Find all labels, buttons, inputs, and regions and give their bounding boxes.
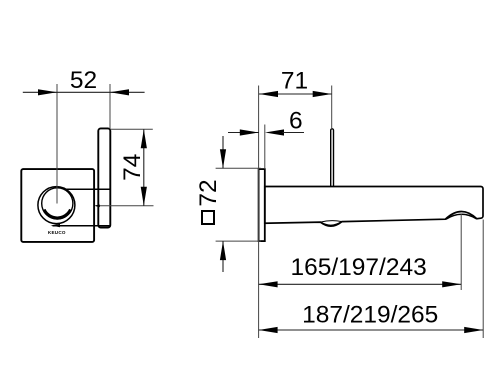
spout body outline bbox=[265, 187, 483, 227]
svg-text:71: 71 bbox=[281, 68, 308, 95]
dim 71 left arrow bbox=[259, 91, 278, 97]
dim 74 top arrow bbox=[141, 129, 147, 148]
svg-text:52: 52 bbox=[70, 67, 97, 94]
knob thick lower arc bbox=[44, 210, 71, 218]
dim 187 right arrow bbox=[464, 327, 483, 333]
dim 52 dimension line bbox=[23, 91, 145, 93]
dim 74 bottom arrow bbox=[141, 187, 147, 206]
svg-text:6: 6 bbox=[289, 108, 303, 135]
dim 74 dimension line bbox=[143, 129, 145, 206]
dim 74 top extension line bbox=[110, 128, 153, 130]
mixing pin on spout top bbox=[331, 129, 334, 187]
dim 71 right extension line bbox=[331, 86, 333, 130]
knob inner circle bbox=[42, 188, 73, 219]
svg-text:187/219/265: 187/219/265 bbox=[302, 301, 438, 328]
dim 165/197/243 dimension line bbox=[259, 283, 462, 285]
svg-text:165/197/243: 165/197/243 bbox=[290, 254, 426, 281]
dim 71 right arrow bbox=[313, 91, 332, 97]
dim 187 left arrow bbox=[259, 327, 278, 333]
spout outlet inner arc bbox=[446, 214, 476, 219]
dim 74 bottom reference line bbox=[96, 205, 154, 207]
wall plate side rectangle bbox=[259, 169, 265, 241]
dim 187/219/265 dimension line bbox=[259, 329, 484, 331]
dim sq72 top arrow bbox=[220, 149, 226, 168]
dim 165 right extension line bbox=[460, 214, 462, 291]
svg-text:KEUCO: KEUCO bbox=[48, 230, 66, 235]
dim sq72 dimension line bottom segment bbox=[222, 241, 224, 272]
dim 52 left arrow bbox=[38, 89, 57, 95]
dim 165 right arrow bbox=[442, 281, 461, 287]
aerator lens lower thick arc bbox=[321, 222, 342, 226]
wall flange tall rectangle bbox=[98, 128, 110, 227]
dim 6 left arrow bbox=[240, 129, 259, 135]
dim 6 right extension line bbox=[264, 125, 266, 170]
handle stem bottom leader arrow bbox=[51, 224, 61, 227]
dim 52 right extension line bbox=[109, 84, 111, 129]
knob outer circle bbox=[38, 187, 75, 224]
handle escutcheon square plate bbox=[21, 169, 94, 242]
dim 165 left arrow bbox=[259, 281, 278, 287]
centerline through knob bbox=[56, 84, 58, 204]
dim sq72 dimension line top segment bbox=[222, 136, 224, 168]
handle stem top line bbox=[65, 188, 111, 190]
dim sq72 bottom extension line bbox=[216, 240, 261, 242]
dim 6 leader line bbox=[283, 132, 305, 134]
handle stem bottom line bbox=[53, 225, 111, 227]
dim sq72 top extension line bbox=[216, 167, 261, 169]
dim sq72 label square symbol bbox=[202, 211, 214, 224]
dim 52 right arrow bbox=[110, 89, 129, 95]
dim 6 right arrow bbox=[265, 129, 284, 135]
svg-text:74: 74 bbox=[119, 154, 146, 181]
svg-text:72: 72 bbox=[195, 179, 222, 206]
dim sq72 bottom arrow bbox=[220, 241, 226, 260]
aerator lens upper arc bbox=[320, 221, 342, 222]
dim 187 right extension line bbox=[482, 220, 484, 339]
dim 71 dimension line bbox=[259, 93, 332, 95]
dim 71 left extension line (wall face line) bbox=[258, 86, 260, 339]
dim 74 bottom reference arrow bbox=[94, 205, 100, 208]
dim 6 dimension line left part bbox=[228, 132, 259, 134]
